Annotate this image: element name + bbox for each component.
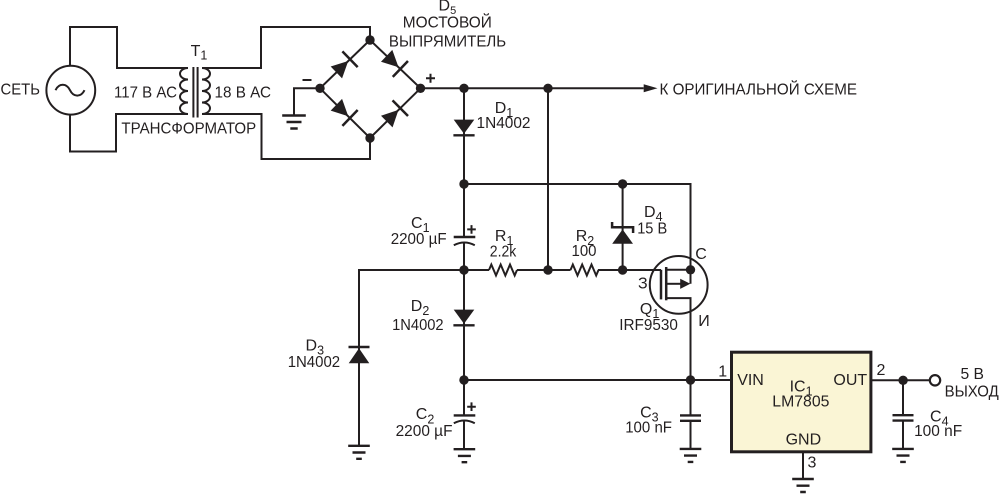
svg-text:1N4002: 1N4002 bbox=[288, 354, 340, 371]
svg-text:1N4002: 1N4002 bbox=[477, 115, 531, 132]
svg-text:117 В АС: 117 В АС bbox=[114, 85, 177, 102]
svg-text:З: З bbox=[638, 276, 648, 293]
svg-text:3: 3 bbox=[808, 454, 817, 471]
svg-text:100 nF: 100 nF bbox=[625, 419, 672, 436]
svg-text:100 nF: 100 nF bbox=[914, 423, 962, 440]
svg-text:ВЫПРЯМИТЕЛЬ: ВЫПРЯМИТЕЛЬ bbox=[389, 34, 506, 51]
svg-text:1: 1 bbox=[718, 364, 727, 381]
svg-text:GND: GND bbox=[786, 432, 822, 449]
svg-text:1N4002: 1N4002 bbox=[392, 317, 444, 334]
svg-text:МОСТОВОЙ: МОСТОВОЙ bbox=[403, 13, 492, 32]
svg-text:T1: T1 bbox=[191, 43, 208, 63]
svg-text:2200 µF: 2200 µF bbox=[391, 231, 447, 248]
svg-text:OUT: OUT bbox=[833, 372, 867, 389]
svg-text:LM7805: LM7805 bbox=[772, 393, 829, 410]
svg-text:100: 100 bbox=[572, 243, 597, 260]
svg-text:ВЫХОД: ВЫХОД bbox=[945, 383, 999, 400]
svg-text:С: С bbox=[695, 246, 707, 263]
svg-text:18 В АС: 18 В АС bbox=[215, 85, 272, 102]
svg-text:D2: D2 bbox=[411, 298, 430, 318]
svg-text:2200 µF: 2200 µF bbox=[396, 423, 453, 440]
svg-text:К ОРИГИНАЛЬНОЙ СХЕМЕ: К ОРИГИНАЛЬНОЙ СХЕМЕ bbox=[660, 79, 858, 98]
svg-text:ТРАНСФОРМАТОР: ТРАНСФОРМАТОР bbox=[121, 121, 256, 138]
svg-text:5 В: 5 В bbox=[961, 366, 985, 383]
svg-text:VIN: VIN bbox=[737, 372, 764, 389]
svg-text:И: И bbox=[698, 313, 710, 330]
svg-text:2: 2 bbox=[877, 362, 886, 379]
svg-text:15 В: 15 В bbox=[637, 221, 667, 238]
svg-text:2.2k: 2.2k bbox=[490, 244, 517, 261]
svg-text:IRF9530: IRF9530 bbox=[619, 317, 678, 334]
svg-text:СЕТЬ: СЕТЬ bbox=[1, 82, 41, 99]
